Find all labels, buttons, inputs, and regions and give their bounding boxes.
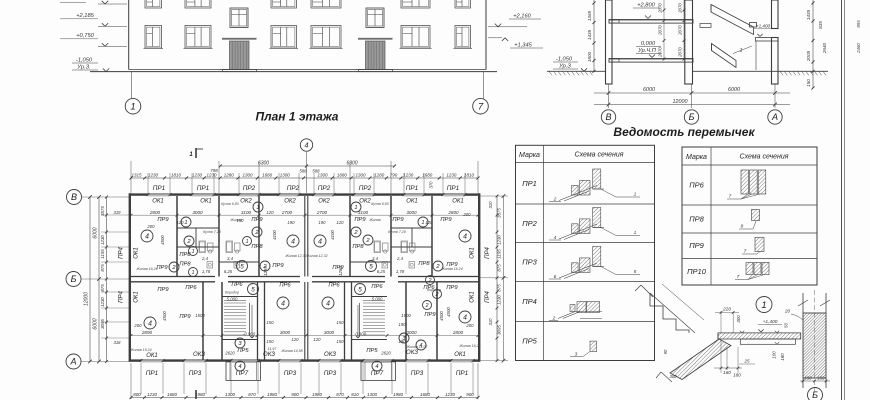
- svg-text:1300: 1300: [242, 172, 253, 177]
- svg-text:798: 798: [210, 168, 218, 173]
- svg-text:3000: 3000: [406, 330, 417, 335]
- svg-text:3000: 3000: [192, 210, 203, 215]
- svg-text:5: 5: [634, 269, 637, 275]
- svg-text:ПР5: ПР5: [522, 337, 537, 346]
- svg-text:6000: 6000: [643, 87, 655, 93]
- svg-text:1: 1: [130, 102, 135, 113]
- svg-text:790: 790: [390, 172, 398, 177]
- svg-text:ПР10: ПР10: [687, 267, 707, 276]
- svg-text:120: 120: [266, 210, 274, 215]
- svg-text:1300: 1300: [355, 172, 366, 177]
- svg-text:Жилая 12,32: Жилая 12,32: [284, 254, 306, 258]
- svg-text:370: 370: [428, 181, 433, 189]
- svg-text:ПР9: ПР9: [424, 312, 436, 318]
- svg-text:Кухня 6,83: Кухня 6,83: [371, 202, 389, 206]
- svg-text:Жилая 11,07: Жилая 11,07: [406, 345, 429, 349]
- svg-text:1800: 1800: [587, 51, 592, 62]
- svg-text:1: 1: [246, 239, 249, 245]
- svg-text:Марка: Марка: [686, 154, 707, 161]
- svg-text:1230: 1230: [147, 392, 158, 397]
- svg-text:ПР2: ПР2: [318, 185, 331, 192]
- svg-text:50: 50: [784, 323, 789, 329]
- svg-text:ПР9: ПР9: [689, 241, 704, 250]
- svg-text:5: 5: [358, 286, 362, 293]
- svg-text:4: 4: [463, 234, 467, 241]
- svg-text:1,78: 1,78: [202, 269, 211, 274]
- svg-text:Схема сечения: Схема сечения: [740, 154, 789, 161]
- svg-text:ПР3: ПР3: [522, 258, 537, 267]
- svg-text:ПР9: ПР9: [272, 263, 284, 269]
- svg-text:+1,400: +1,400: [756, 24, 771, 29]
- svg-text:Жилая 16,24: Жилая 16,24: [458, 344, 480, 348]
- svg-text:3,4: 3,4: [372, 256, 379, 261]
- svg-text:ПР5: ПР5: [237, 348, 249, 354]
- svg-text:319: 319: [114, 210, 122, 215]
- svg-text:ПР2: ПР2: [243, 185, 256, 192]
- svg-text:Коридор: Коридор: [225, 291, 239, 295]
- svg-text:180: 180: [780, 353, 785, 361]
- svg-text:1980: 1980: [393, 392, 404, 397]
- svg-text:ПР6: ПР6: [328, 283, 340, 289]
- svg-text:3000: 3000: [280, 330, 291, 335]
- svg-text:6000: 6000: [728, 87, 740, 93]
- svg-text:1285: 1285: [263, 266, 268, 276]
- svg-text:1680: 1680: [262, 172, 273, 177]
- svg-text:-0,900: -0,900: [243, 332, 256, 337]
- svg-text:ПР9: ПР9: [157, 217, 169, 223]
- svg-text:25: 25: [743, 359, 750, 364]
- svg-text:ПР8: ПР8: [179, 252, 191, 258]
- svg-text:12000: 12000: [83, 292, 89, 306]
- svg-text:Кухня 7,29: Кухня 7,29: [203, 230, 221, 234]
- svg-text:Марка: Марка: [519, 152, 540, 159]
- svg-text:6000: 6000: [92, 318, 98, 329]
- svg-text:120: 120: [336, 220, 344, 225]
- svg-text:4: 4: [304, 141, 308, 150]
- svg-text:В: В: [71, 192, 77, 202]
- svg-text:4500: 4500: [439, 311, 444, 321]
- svg-text:ПР8: ПР8: [179, 262, 191, 268]
- svg-text:810: 810: [351, 392, 359, 397]
- svg-text:4: 4: [238, 364, 241, 370]
- svg-text:1680: 1680: [337, 172, 348, 177]
- svg-text:150: 150: [266, 320, 274, 325]
- svg-text:875: 875: [497, 264, 502, 272]
- svg-text:2700: 2700: [316, 210, 328, 215]
- svg-text:Жилая: Жилая: [229, 218, 241, 222]
- svg-text:ОК2: ОК2: [240, 199, 252, 205]
- svg-text:875: 875: [497, 284, 502, 292]
- svg-text:ПР4: ПР4: [119, 246, 125, 258]
- svg-text:1230: 1230: [445, 392, 456, 397]
- svg-text:ПР4: ПР4: [522, 297, 537, 306]
- svg-text:ПР9: ПР9: [179, 314, 191, 320]
- svg-text:1: 1: [761, 300, 766, 311]
- svg-text:ПР6: ПР6: [231, 282, 243, 288]
- svg-text:Кухня 6,83: Кухня 6,83: [221, 202, 239, 206]
- svg-text:875: 875: [100, 264, 105, 272]
- svg-text:1680: 1680: [167, 392, 178, 397]
- svg-text:1230: 1230: [446, 172, 457, 177]
- svg-text:7: 7: [744, 249, 747, 255]
- svg-text:6000: 6000: [92, 227, 98, 238]
- svg-text:1300: 1300: [367, 392, 378, 397]
- svg-text:5: 5: [369, 263, 373, 270]
- svg-text:ПР3: ПР3: [324, 370, 337, 377]
- svg-text:Б: Б: [71, 274, 77, 284]
- svg-text:Ур.З.: Ур.З.: [76, 65, 90, 71]
- svg-text:1300: 1300: [225, 392, 236, 397]
- svg-text:-0,900: -0,900: [354, 332, 367, 337]
- svg-text:ПР9: ПР9: [354, 217, 366, 223]
- svg-text:1230: 1230: [148, 172, 159, 177]
- svg-text:2620: 2620: [380, 351, 391, 356]
- svg-text:6300: 6300: [346, 161, 357, 167]
- svg-text:120: 120: [313, 337, 321, 342]
- svg-text:ОК2: ОК2: [284, 199, 296, 205]
- svg-text:Б: Б: [812, 390, 818, 400]
- svg-text:+2,160: +2,160: [513, 14, 531, 20]
- svg-text:588: 588: [312, 169, 320, 174]
- svg-text:5,000: 5,000: [372, 297, 383, 302]
- svg-text:В: В: [605, 112, 611, 122]
- svg-text:4: 4: [554, 235, 557, 241]
- svg-text:ОК1: ОК1: [452, 199, 464, 205]
- svg-text:870: 870: [336, 392, 344, 397]
- svg-text:ПР1: ПР1: [406, 185, 419, 192]
- svg-text:2070: 2070: [678, 25, 683, 36]
- svg-text:200: 200: [146, 224, 155, 229]
- svg-text:ПР6: ПР6: [185, 285, 197, 291]
- svg-text:120: 120: [291, 337, 299, 342]
- svg-text:200: 200: [462, 212, 471, 217]
- svg-text:ПР9: ПР9: [440, 217, 452, 223]
- svg-text:ОК1: ОК1: [406, 199, 418, 205]
- svg-text:2800: 2800: [149, 210, 161, 215]
- svg-text:3000: 3000: [406, 210, 417, 215]
- svg-text:+2,800: +2,800: [637, 3, 655, 9]
- svg-text:11,97: 11,97: [268, 347, 278, 351]
- svg-text:90: 90: [663, 349, 668, 354]
- svg-text:150: 150: [806, 79, 811, 87]
- svg-text:1: 1: [184, 220, 187, 226]
- svg-text:ПР4: ПР4: [119, 290, 125, 302]
- svg-text:5,000: 5,000: [227, 297, 238, 302]
- svg-text:310: 310: [488, 318, 493, 326]
- svg-text:1230: 1230: [192, 172, 203, 177]
- svg-text:1195: 1195: [100, 249, 105, 259]
- svg-text:2: 2: [435, 292, 439, 298]
- svg-text:4500: 4500: [162, 311, 167, 321]
- svg-text:2620: 2620: [224, 351, 235, 356]
- svg-text:1315: 1315: [131, 172, 142, 177]
- svg-text:+1,400: +1,400: [763, 319, 778, 325]
- svg-text:ПР3: ПР3: [284, 370, 297, 377]
- svg-text:Жилая: Жилая: [368, 218, 380, 222]
- svg-text:150: 150: [266, 339, 274, 344]
- svg-text:ПР8: ПР8: [251, 244, 263, 250]
- svg-text:ПР4: ПР4: [485, 290, 491, 302]
- svg-text:2: 2: [553, 197, 557, 203]
- svg-text:1680: 1680: [420, 392, 431, 397]
- svg-text:1230: 1230: [100, 235, 105, 245]
- svg-text:8: 8: [741, 224, 744, 230]
- svg-text:2070: 2070: [658, 47, 663, 58]
- svg-text:3: 3: [575, 352, 578, 358]
- svg-text:4: 4: [463, 315, 467, 322]
- svg-text:310: 310: [488, 201, 493, 209]
- svg-text:6,25: 6,25: [377, 269, 386, 274]
- svg-text:895: 895: [856, 20, 861, 28]
- svg-text:+2,185: +2,185: [76, 13, 94, 19]
- svg-text:ПР2: ПР2: [359, 185, 372, 192]
- svg-text:ОКЗ: ОКЗ: [324, 352, 336, 358]
- svg-text:120: 120: [176, 220, 184, 225]
- svg-text:Схема сечения: Схема сечения: [575, 152, 624, 159]
- svg-text:ПР9: ПР9: [446, 285, 458, 291]
- svg-text:1,78: 1,78: [396, 269, 405, 274]
- svg-text:6300: 6300: [258, 161, 269, 167]
- svg-text:160: 160: [723, 370, 731, 375]
- svg-text:1195: 1195: [497, 249, 502, 259]
- svg-text:4: 4: [291, 239, 295, 246]
- svg-text:ПР1: ПР1: [456, 370, 469, 377]
- svg-text:7: 7: [729, 194, 732, 200]
- svg-text:+1,345: +1,345: [514, 43, 532, 49]
- svg-text:2: 2: [428, 278, 432, 284]
- svg-text:20: 20: [784, 309, 791, 314]
- svg-text:220: 220: [722, 307, 731, 313]
- svg-text:А: А: [771, 112, 778, 122]
- svg-text:870: 870: [248, 392, 256, 397]
- svg-text:Кухня 7,29: Кухня 7,29: [388, 230, 406, 234]
- svg-text:1980: 1980: [312, 392, 323, 397]
- svg-text:Жилая 15,24: Жилая 15,24: [129, 348, 151, 352]
- svg-text:4500: 4500: [446, 307, 451, 317]
- svg-text:ПР1: ПР1: [146, 370, 159, 377]
- svg-text:Жилая 16,24: Жилая 16,24: [440, 267, 462, 271]
- svg-text:ПР1: ПР1: [153, 185, 166, 192]
- svg-text:ПР9: ПР9: [157, 287, 169, 293]
- svg-text:4: 4: [318, 239, 322, 246]
- svg-text:588: 588: [299, 169, 307, 174]
- svg-text:4: 4: [145, 234, 149, 241]
- svg-text:3,4: 3,4: [227, 256, 234, 261]
- svg-text:4500: 4500: [160, 235, 165, 245]
- svg-text:2,4: 2,4: [201, 256, 209, 261]
- svg-text:ОК1: ОК1: [134, 247, 140, 259]
- svg-text:1: 1: [192, 270, 195, 276]
- svg-text:4: 4: [281, 301, 285, 308]
- svg-text:1: 1: [192, 249, 195, 255]
- svg-text:ПР3: ПР3: [411, 370, 424, 377]
- svg-text:План 1 этажа: План 1 этажа: [256, 110, 339, 124]
- svg-text:ПР7: ПР7: [236, 370, 249, 377]
- svg-text:Б: Б: [689, 112, 695, 122]
- svg-text:1300: 1300: [280, 172, 291, 177]
- svg-text:ПР1: ПР1: [447, 185, 460, 192]
- svg-text:2070: 2070: [678, 47, 683, 58]
- svg-text:1: 1: [634, 230, 637, 236]
- svg-text:835: 835: [818, 21, 823, 29]
- svg-text:-1,050: -1,050: [556, 57, 573, 63]
- svg-text:Жилая 14,98: Жилая 14,98: [280, 349, 302, 353]
- svg-text:ОК1: ОК1: [134, 291, 140, 303]
- svg-text:3100: 3100: [358, 210, 369, 215]
- svg-text:800: 800: [133, 392, 141, 397]
- svg-text:ПР8: ПР8: [352, 244, 364, 250]
- svg-text:ОКЗ: ОКЗ: [406, 350, 418, 356]
- svg-text:ПР1: ПР1: [197, 185, 210, 192]
- svg-text:ОК1: ОК1: [470, 247, 476, 259]
- svg-text:190: 190: [398, 322, 406, 327]
- svg-text:Ведомость перемычек: Ведомость перемычек: [613, 125, 755, 139]
- svg-text:1810: 1810: [171, 172, 182, 177]
- svg-text:1: 1: [740, 48, 743, 54]
- svg-text:2070: 2070: [658, 3, 663, 14]
- svg-text:1: 1: [256, 205, 259, 211]
- svg-text:ПР1: ПР1: [522, 179, 537, 188]
- svg-text:2: 2: [552, 316, 556, 322]
- svg-text:А: А: [69, 357, 76, 367]
- svg-text:ПР5: ПР5: [366, 348, 378, 354]
- svg-text:ПР3: ПР3: [189, 370, 202, 377]
- svg-text:ПР8: ПР8: [689, 215, 704, 224]
- svg-text:ПР6: ПР6: [371, 284, 383, 290]
- svg-text:ОК1: ОК1: [146, 353, 158, 359]
- svg-text:ПР9: ПР9: [156, 265, 168, 271]
- svg-text:4: 4: [326, 301, 330, 308]
- svg-text:2005: 2005: [806, 50, 811, 62]
- svg-text:2: 2: [425, 303, 429, 309]
- svg-text:1280: 1280: [374, 172, 385, 177]
- svg-text:4: 4: [148, 321, 152, 328]
- svg-text:2640: 2640: [822, 42, 827, 54]
- svg-text:1980: 1980: [267, 392, 278, 397]
- svg-text:3000: 3000: [324, 330, 335, 335]
- svg-text:150: 150: [336, 320, 344, 325]
- svg-text:ПР8: ПР8: [418, 261, 430, 267]
- svg-text:4100: 4100: [330, 230, 335, 240]
- svg-text:150: 150: [804, 376, 812, 381]
- svg-text:2890: 2890: [141, 330, 153, 335]
- svg-text:ОКЗ: ОКЗ: [193, 352, 205, 358]
- svg-text:1435: 1435: [806, 9, 811, 20]
- svg-text:ОК1: ОК1: [152, 199, 164, 205]
- svg-text:100: 100: [772, 351, 777, 359]
- svg-text:7: 7: [478, 102, 484, 113]
- svg-text:Ур.З: Ур.З: [558, 64, 571, 70]
- svg-text:1280: 1280: [224, 172, 235, 177]
- svg-text:150: 150: [817, 376, 825, 381]
- svg-text:ПР9: ПР9: [251, 217, 263, 223]
- svg-text:1900: 1900: [401, 313, 411, 318]
- svg-text:Ур.Ч.П: Ур.Ч.П: [637, 48, 657, 54]
- svg-text:1230: 1230: [497, 235, 502, 245]
- svg-text:ПР6: ПР6: [689, 181, 704, 190]
- svg-text:ОК1: ОК1: [470, 291, 476, 303]
- svg-text:200: 200: [465, 323, 474, 328]
- svg-text:ОК2: ОК2: [318, 199, 330, 205]
- svg-text:Жилая 12,32: Жилая 12,32: [305, 254, 327, 258]
- svg-text:4100: 4100: [272, 230, 277, 240]
- svg-text:2070: 2070: [678, 3, 683, 14]
- svg-text:300: 300: [736, 315, 741, 323]
- svg-text:1285: 1285: [338, 266, 343, 276]
- svg-text:180: 180: [733, 373, 741, 378]
- svg-text:+0,750: +0,750: [76, 33, 94, 39]
- svg-text:2070: 2070: [658, 25, 663, 36]
- svg-text:ОКЗ: ОКЗ: [263, 352, 275, 358]
- svg-text:150: 150: [336, 339, 344, 344]
- svg-text:Коридор: Коридор: [427, 288, 441, 292]
- svg-text:190: 190: [287, 220, 295, 225]
- svg-text:2700: 2700: [281, 210, 293, 215]
- svg-text:6: 6: [554, 274, 557, 280]
- svg-text:ПР2: ПР2: [522, 219, 537, 228]
- svg-text:1: 1: [421, 220, 424, 226]
- svg-text:6,25: 6,25: [224, 269, 233, 274]
- svg-text:ПР9: ПР9: [392, 217, 404, 223]
- svg-text:2800: 2800: [452, 330, 464, 335]
- svg-text:2800: 2800: [447, 210, 459, 215]
- svg-text:900: 900: [291, 392, 299, 397]
- svg-text:5: 5: [240, 263, 244, 270]
- svg-text:12000: 12000: [673, 99, 688, 105]
- svg-text:1500: 1500: [195, 313, 205, 318]
- svg-text:3095: 3095: [100, 319, 105, 329]
- svg-text:120: 120: [425, 220, 433, 225]
- svg-text:1680: 1680: [422, 172, 433, 177]
- svg-text:3575: 3575: [100, 206, 105, 216]
- svg-text:-1,050: -1,050: [76, 58, 93, 64]
- svg-text:1230: 1230: [403, 172, 414, 177]
- svg-text:2460: 2460: [856, 43, 861, 54]
- svg-text:1980: 1980: [195, 392, 206, 397]
- svg-text:ОК1: ОК1: [200, 199, 212, 205]
- svg-text:1230: 1230: [206, 172, 217, 177]
- svg-text:1230: 1230: [497, 295, 502, 305]
- svg-text:ОК1: ОК1: [454, 352, 466, 358]
- svg-text:1230: 1230: [100, 297, 105, 307]
- svg-text:ПР6: ПР6: [279, 283, 291, 289]
- svg-text:1: 1: [634, 192, 637, 198]
- svg-text:1810: 1810: [464, 172, 475, 177]
- svg-text:4: 4: [375, 364, 378, 370]
- svg-text:190: 190: [318, 220, 326, 225]
- svg-text:200: 200: [133, 323, 142, 328]
- svg-text:190: 190: [398, 339, 406, 344]
- svg-text:318: 318: [114, 340, 122, 345]
- svg-text:Жилая 16,24: Жилая 16,24: [135, 267, 157, 271]
- svg-text:3095: 3095: [497, 325, 502, 335]
- svg-text:2,4: 2,4: [396, 256, 404, 261]
- svg-text:5: 5: [251, 286, 255, 293]
- svg-text:3575: 3575: [497, 208, 502, 218]
- svg-text:ПР4: ПР4: [485, 246, 491, 258]
- svg-text:3100: 3100: [241, 210, 252, 215]
- svg-text:ПР2: ПР2: [287, 185, 300, 192]
- svg-text:1435: 1435: [587, 29, 592, 40]
- svg-text:300: 300: [670, 374, 678, 379]
- svg-text:875: 875: [100, 284, 105, 292]
- svg-text:7: 7: [737, 274, 740, 280]
- svg-text:ОК2: ОК2: [359, 199, 371, 205]
- svg-text:1365: 1365: [587, 10, 592, 21]
